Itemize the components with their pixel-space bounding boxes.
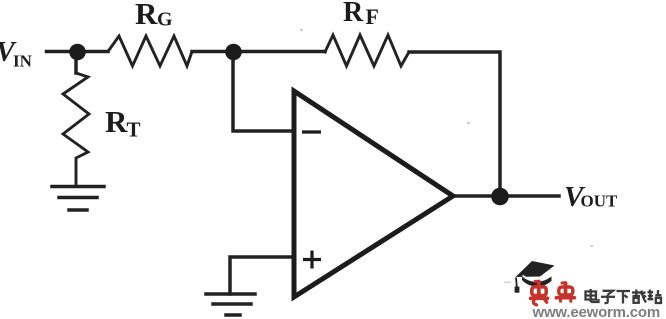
svg-text:OUT: OUT — [581, 192, 619, 211]
svg-text:T: T — [127, 118, 141, 142]
svg-text:R: R — [343, 0, 364, 28]
svg-text:www.eeworm.com: www.eeworm.com — [532, 304, 661, 319]
svg-text:R: R — [105, 104, 128, 139]
svg-text:F: F — [366, 4, 379, 29]
svg-text:R: R — [135, 0, 158, 31]
svg-text:G: G — [157, 9, 173, 31]
svg-text:IN: IN — [13, 52, 33, 71]
